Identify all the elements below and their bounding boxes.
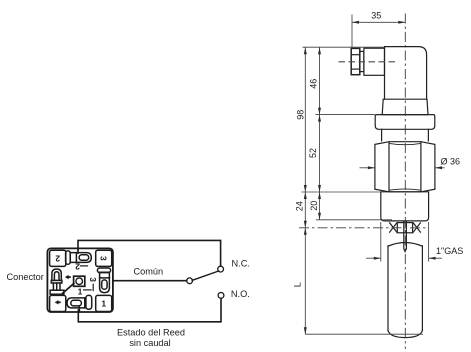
switch blade: [192, 271, 219, 280]
contact N.C.: [218, 266, 224, 272]
terminal screw pin1 (bottom, head right): [67, 295, 92, 312]
earth arrow in corner square: [55, 300, 61, 304]
corner square 3 (top-right): [96, 250, 112, 266]
ext line thread od right: [428, 222, 430, 262]
gland stub washer: [360, 51, 364, 71]
ext line 35 left: [351, 15, 353, 48]
arrowheads: [304, 21, 442, 334]
pin number texts: [55, 253, 109, 308]
ext line thread od left: [380, 222, 382, 262]
ext line top of housing: [303, 46, 385, 48]
svg-text:98: 98: [296, 110, 306, 120]
arrows dim 46: [318, 47, 321, 54]
dim line diameter 36 left: [360, 167, 375, 169]
center screw circle: [76, 278, 83, 285]
probe bottom: [388, 331, 422, 338]
ext line hex bottom: [302, 191, 381, 193]
center screw square: [74, 276, 85, 286]
dim line 35: [352, 21, 405, 23]
leader line label 2: [81, 265, 88, 267]
ext line flange top: [316, 114, 376, 116]
svg-text:3: 3: [88, 277, 98, 282]
flange: [375, 115, 435, 130]
ext line probe end: [305, 333, 423, 335]
svg-text:1: 1: [101, 299, 106, 309]
svg-text:35: 35: [371, 11, 381, 21]
svg-text:2: 2: [55, 253, 60, 263]
wire comun from connector to switch: [114, 280, 187, 282]
gland nut: [351, 48, 360, 74]
hex nut: [375, 142, 435, 192]
wire bottom from N.O. to connector: [78, 298, 221, 321]
dim line 46/52/20: [319, 47, 321, 220]
svg-text:Conector: Conector: [7, 272, 44, 282]
probe top dome: [388, 243, 422, 247]
earth arrow marker near screw: [65, 275, 71, 279]
leader line label 1: [84, 289, 91, 291]
centerline vertical: [404, 14, 406, 350]
housing base block: [382, 99, 428, 114]
wire top from connector to N.C.: [78, 240, 221, 266]
svg-text:Común: Común: [134, 267, 164, 277]
svg-text:sin caudal: sin caudal: [129, 338, 170, 348]
svg-text:3: 3: [99, 256, 109, 261]
neck: [381, 129, 383, 141]
arrows dim 35: [352, 21, 359, 24]
svg-text:52: 52: [308, 148, 318, 158]
svg-text:20: 20: [309, 201, 319, 211]
arrows dim L: [304, 228, 307, 235]
leader line label 3: [92, 284, 94, 290]
thread section: [381, 192, 429, 221]
dimension texts: [292, 11, 463, 288]
arrows dim 52: [318, 115, 321, 122]
corner square earth (bottom-left): [50, 295, 66, 311]
svg-text:Ø 36: Ø 36: [441, 157, 461, 167]
centerline gland horizontal: [339, 61, 397, 63]
svg-text:1"GAS: 1"GAS: [436, 246, 463, 256]
arrows dim diameter 36: [368, 166, 375, 169]
ext line fitting end dashdot: [299, 227, 426, 229]
dim line diameter 36 right: [435, 167, 445, 169]
svg-text:2: 2: [75, 261, 80, 271]
contact N.O.: [218, 293, 224, 299]
connector body outline: [47, 248, 113, 312]
gland body: [364, 48, 385, 75]
svg-text:N.O.: N.O.: [231, 289, 250, 299]
svg-text:46: 46: [309, 79, 319, 89]
dim line 98/24/L: [304, 47, 306, 334]
connector housing: [385, 47, 427, 100]
ext line thread lower: [316, 219, 392, 221]
thread runout block: [397, 223, 412, 233]
earth link diagonal: [63, 284, 74, 294]
svg-text:N.C.: N.C.: [232, 258, 250, 268]
arrows dim 24: [304, 192, 307, 199]
terminal screw pin3 (right, head top): [97, 268, 110, 293]
svg-text:Estado del Reed: Estado del Reed: [117, 328, 185, 338]
dim line 1 gas right: [429, 257, 442, 259]
probe body: [387, 246, 389, 331]
dimension lines: [299, 15, 445, 335]
arrows dim 20: [318, 192, 321, 199]
svg-text:L: L: [292, 282, 302, 287]
terminal screw pin2 (top, head left): [66, 248, 92, 264]
thread mark X right: [413, 223, 420, 232]
needle tube: [404, 221, 407, 252]
thread mark X left: [390, 223, 397, 232]
svg-text:1: 1: [78, 286, 83, 296]
corner square 2 (top-left): [50, 250, 66, 266]
corner square 1 (bottom-right): [96, 295, 112, 311]
contact comun: [187, 278, 193, 284]
svg-text:24: 24: [294, 201, 304, 211]
terminal screw earth (left, head top): [50, 269, 64, 294]
arrows dim 98: [304, 47, 307, 54]
arrows dim 1 gas: [374, 257, 381, 260]
dim line 1 gas left: [366, 257, 381, 259]
